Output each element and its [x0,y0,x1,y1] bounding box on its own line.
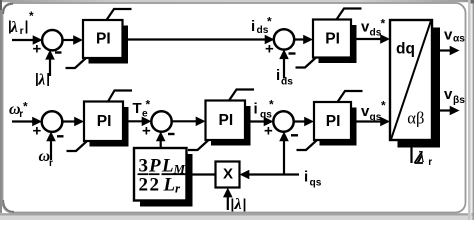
svg-text:X: X [223,166,233,183]
node |lambda| feedback label [35,71,50,88]
svg-text:+: + [265,41,274,58]
svg-text:i: i [304,169,308,186]
summing junction S1 [33,30,63,58]
svg-text:PI: PI [326,113,341,130]
node omega_r* label [9,100,28,121]
wire v_beta_s output [440,106,460,116]
svg-text:i: i [254,101,258,118]
multiplier block X [216,162,240,188]
svg-text:PI: PI [219,112,234,129]
svg-text:2: 2 [139,175,149,196]
node |lambda| input label [231,196,247,213]
summing junction S4 [142,111,175,139]
wire i_qs feedback vertical to S5 [279,132,289,175]
svg-text:λ: λ [417,149,425,166]
svg-text:PI: PI [96,31,111,48]
wire omega_r feedback [46,132,56,161]
svg-text:PI: PI [97,113,112,130]
op-amp PI controller PI1 [66,9,132,68]
svg-text:T: T [133,100,142,117]
node i_ds feedback label [276,67,293,88]
svg-text:r: r [20,26,24,37]
svg-text:*: * [269,97,274,111]
svg-text:2: 2 [150,175,160,196]
wire lambda_r* input [12,35,43,45]
summing junction S5 [264,111,298,139]
wire PI1 to S2 [123,35,275,45]
wire angle lambda_r input [410,147,412,163]
wire S2 to PI2 [294,35,313,45]
wire omega_r* input [12,117,42,127]
svg-text:λ: λ [10,19,18,36]
svg-text:*: * [23,100,28,114]
node T_e* label [133,97,151,119]
op-amp PI controller PI5 [297,91,363,150]
node angle lambda_r label [415,149,433,168]
svg-text:*: * [381,17,386,31]
node omega_r feedback label [39,148,54,169]
node v_ds* label [361,17,386,39]
node i_qs feedback label [304,169,322,189]
transform block dq/alpha-beta [390,20,440,148]
summing junction S2 [265,29,296,57]
wire |lambda| feedback [45,50,55,76]
wire S4 to PI4 [172,117,206,127]
wire PI4 to S5 [245,117,274,127]
svg-text:αβ: αβ [407,109,424,128]
svg-text:r: r [428,157,432,168]
svg-text:PI: PI [325,30,340,47]
svg-text:+: + [142,123,151,140]
svg-text:*: * [381,98,386,112]
node v_beta_s label [444,86,465,106]
node i_qs* label [254,97,275,120]
op-amp PI controller PI4 [188,90,254,151]
node v_alpha_s label [444,27,465,45]
svg-text:αs: αs [453,33,465,44]
svg-text:+: + [33,41,42,58]
svg-text:dq: dq [396,41,415,58]
wire PI3 to S4 [123,117,152,127]
svg-text:+: + [33,123,42,140]
node v_qs* label [361,98,386,123]
wire X to gain block [190,173,216,175]
wire PI2 to dq block [351,34,390,44]
svg-text:i: i [276,67,280,84]
wire |lambda| into X [223,188,233,210]
svg-text:ds: ds [281,77,293,88]
svg-text:L: L [163,175,176,196]
svg-text:λ: λ [37,71,45,88]
gain block 3/2 P/2 LM/Lr [134,148,193,207]
svg-text:i: i [251,18,255,35]
summing junction S3 [33,111,64,139]
svg-text:*: * [29,9,34,23]
svg-text:+: + [264,123,273,140]
op-amp PI controller PI2 [296,9,362,68]
svg-text:*: * [267,15,272,29]
svg-text:v: v [444,86,453,103]
svg-text:βs: βs [453,95,465,106]
op-amp PI controller PI3 [67,91,133,152]
wire PI5 to dq block [351,117,390,127]
node i_ds* label [251,15,272,37]
svg-text:|: | [243,197,247,212]
wire i_ds feedback [279,49,289,78]
node lambda_r reference label [8,9,34,37]
svg-text:v: v [444,27,453,44]
svg-text:λ: λ [234,196,242,213]
wire v_alpha_s output [440,46,460,56]
svg-text:qs: qs [310,178,322,189]
svg-text:|: | [25,18,29,33]
svg-text:*: * [146,97,151,111]
wire i_qs feedback horizontal [240,170,300,180]
wire S1 to PI1 [62,35,84,45]
wire gain block to S4 [156,132,166,149]
wire S3 to PI3 [62,117,84,127]
wire S5 to PI5 [293,117,314,127]
